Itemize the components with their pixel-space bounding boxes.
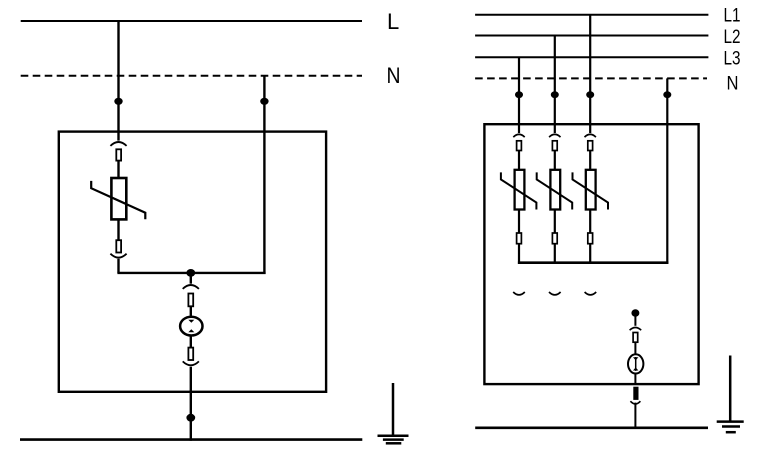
wire down from varistor branch (117, 259, 119, 273)
varistor RV1 (91, 178, 145, 219)
wire from L3 down to branch 1 (518, 57, 520, 133)
node: terminal dot branch 3 (586, 91, 594, 98)
wire from N down into box (263, 76, 265, 274)
line L2 (475, 35, 708, 37)
wire (589, 210, 591, 234)
varistor RV2 (537, 170, 573, 210)
svg-text:L2: L2 (724, 27, 741, 48)
line L1 (475, 14, 708, 16)
wire from L1 down to branch 3 (589, 15, 591, 133)
branch 2 fuse link lower (552, 233, 557, 244)
GDT lower fuse link (188, 348, 193, 360)
PE conductor line (475, 426, 708, 429)
node: dot on PE wire (186, 414, 195, 422)
gas discharge tube / spark gap F1 (180, 317, 202, 336)
wire (117, 161, 119, 178)
junction node (186, 269, 195, 277)
N-PE fuse link lower (634, 387, 638, 399)
upper fuse link element (116, 149, 121, 160)
N-PE disconnector arc upper (630, 328, 642, 331)
wire (634, 374, 636, 386)
SPD enclosure box (59, 132, 326, 392)
wire (589, 151, 591, 170)
lower fuse link element (116, 240, 121, 252)
PE conductor line (20, 438, 362, 441)
GDT upper disconnector arc (183, 285, 199, 289)
wire (554, 244, 556, 264)
svg-text:L1: L1 (724, 6, 741, 27)
branch 3 lower disconnector arc (585, 292, 597, 295)
branch 2 lower disconnector arc (549, 292, 561, 295)
internal bus wire (518, 261, 669, 264)
wire (634, 342, 636, 354)
wire (190, 306, 192, 317)
N-PE disconnector arc lower (630, 401, 640, 404)
wire (190, 336, 192, 348)
svg-text:L: L (387, 9, 399, 34)
neutral line N (dashed) (21, 75, 362, 77)
gas discharge tube / spark gap N-PE (628, 354, 643, 373)
lower thermal disconnector arc (110, 254, 126, 258)
branch 2 fuse link upper (552, 141, 557, 151)
GDT lower disconnector arc (183, 361, 199, 365)
wire from L2 down to branch 2 (554, 36, 556, 134)
wire (554, 210, 556, 234)
varistor RV3 (573, 170, 609, 210)
node: terminal dot on N wire (260, 98, 268, 105)
branch 1 lower disconnector arc (513, 292, 525, 295)
earth ground symbol (378, 383, 409, 443)
branch 3 disconnector arc (585, 134, 596, 137)
wire (518, 151, 520, 170)
branch 1 disconnector arc (513, 134, 524, 137)
branch 3 fuse link lower (588, 233, 593, 244)
wire (554, 151, 556, 170)
svg-text:L3: L3 (724, 49, 741, 70)
branch 2 disconnector arc (549, 134, 560, 137)
svg-text:N: N (727, 73, 739, 94)
wire (634, 313, 636, 326)
wire (190, 273, 192, 284)
node: terminal dot on L wire (114, 98, 122, 105)
svg-text:N: N (387, 63, 401, 88)
connecting wire varistor branch to N branch (117, 272, 265, 274)
branch 3 fuse link upper (588, 141, 593, 151)
wire from N down to bus (666, 78, 668, 264)
line L3 (475, 56, 708, 58)
wire (518, 210, 520, 234)
neutral line N (dashed) (475, 77, 707, 79)
upper thermal disconnector arc (110, 142, 126, 146)
wire down to PE conductor (634, 403, 636, 429)
varistor RV1 (501, 170, 537, 210)
N-PE fuse link upper (633, 333, 638, 343)
branch 1 fuse link lower (517, 233, 522, 244)
branch 1 fuse link upper (517, 141, 522, 151)
GDT upper fuse link (188, 294, 193, 307)
wire (518, 244, 520, 264)
node: dot at top of N-PE gap branch (631, 309, 639, 316)
node: terminal dot N wire (663, 91, 671, 98)
line L (21, 20, 362, 22)
node: terminal dot branch 2 (551, 91, 559, 98)
wire (117, 219, 119, 240)
earth ground symbol (717, 356, 744, 433)
wire (589, 244, 591, 264)
wire from L down to varistor branch (117, 21, 119, 141)
SPD enclosure box (484, 124, 698, 384)
wire down to PE conductor (190, 367, 192, 441)
node: terminal dot branch 1 (515, 91, 523, 98)
